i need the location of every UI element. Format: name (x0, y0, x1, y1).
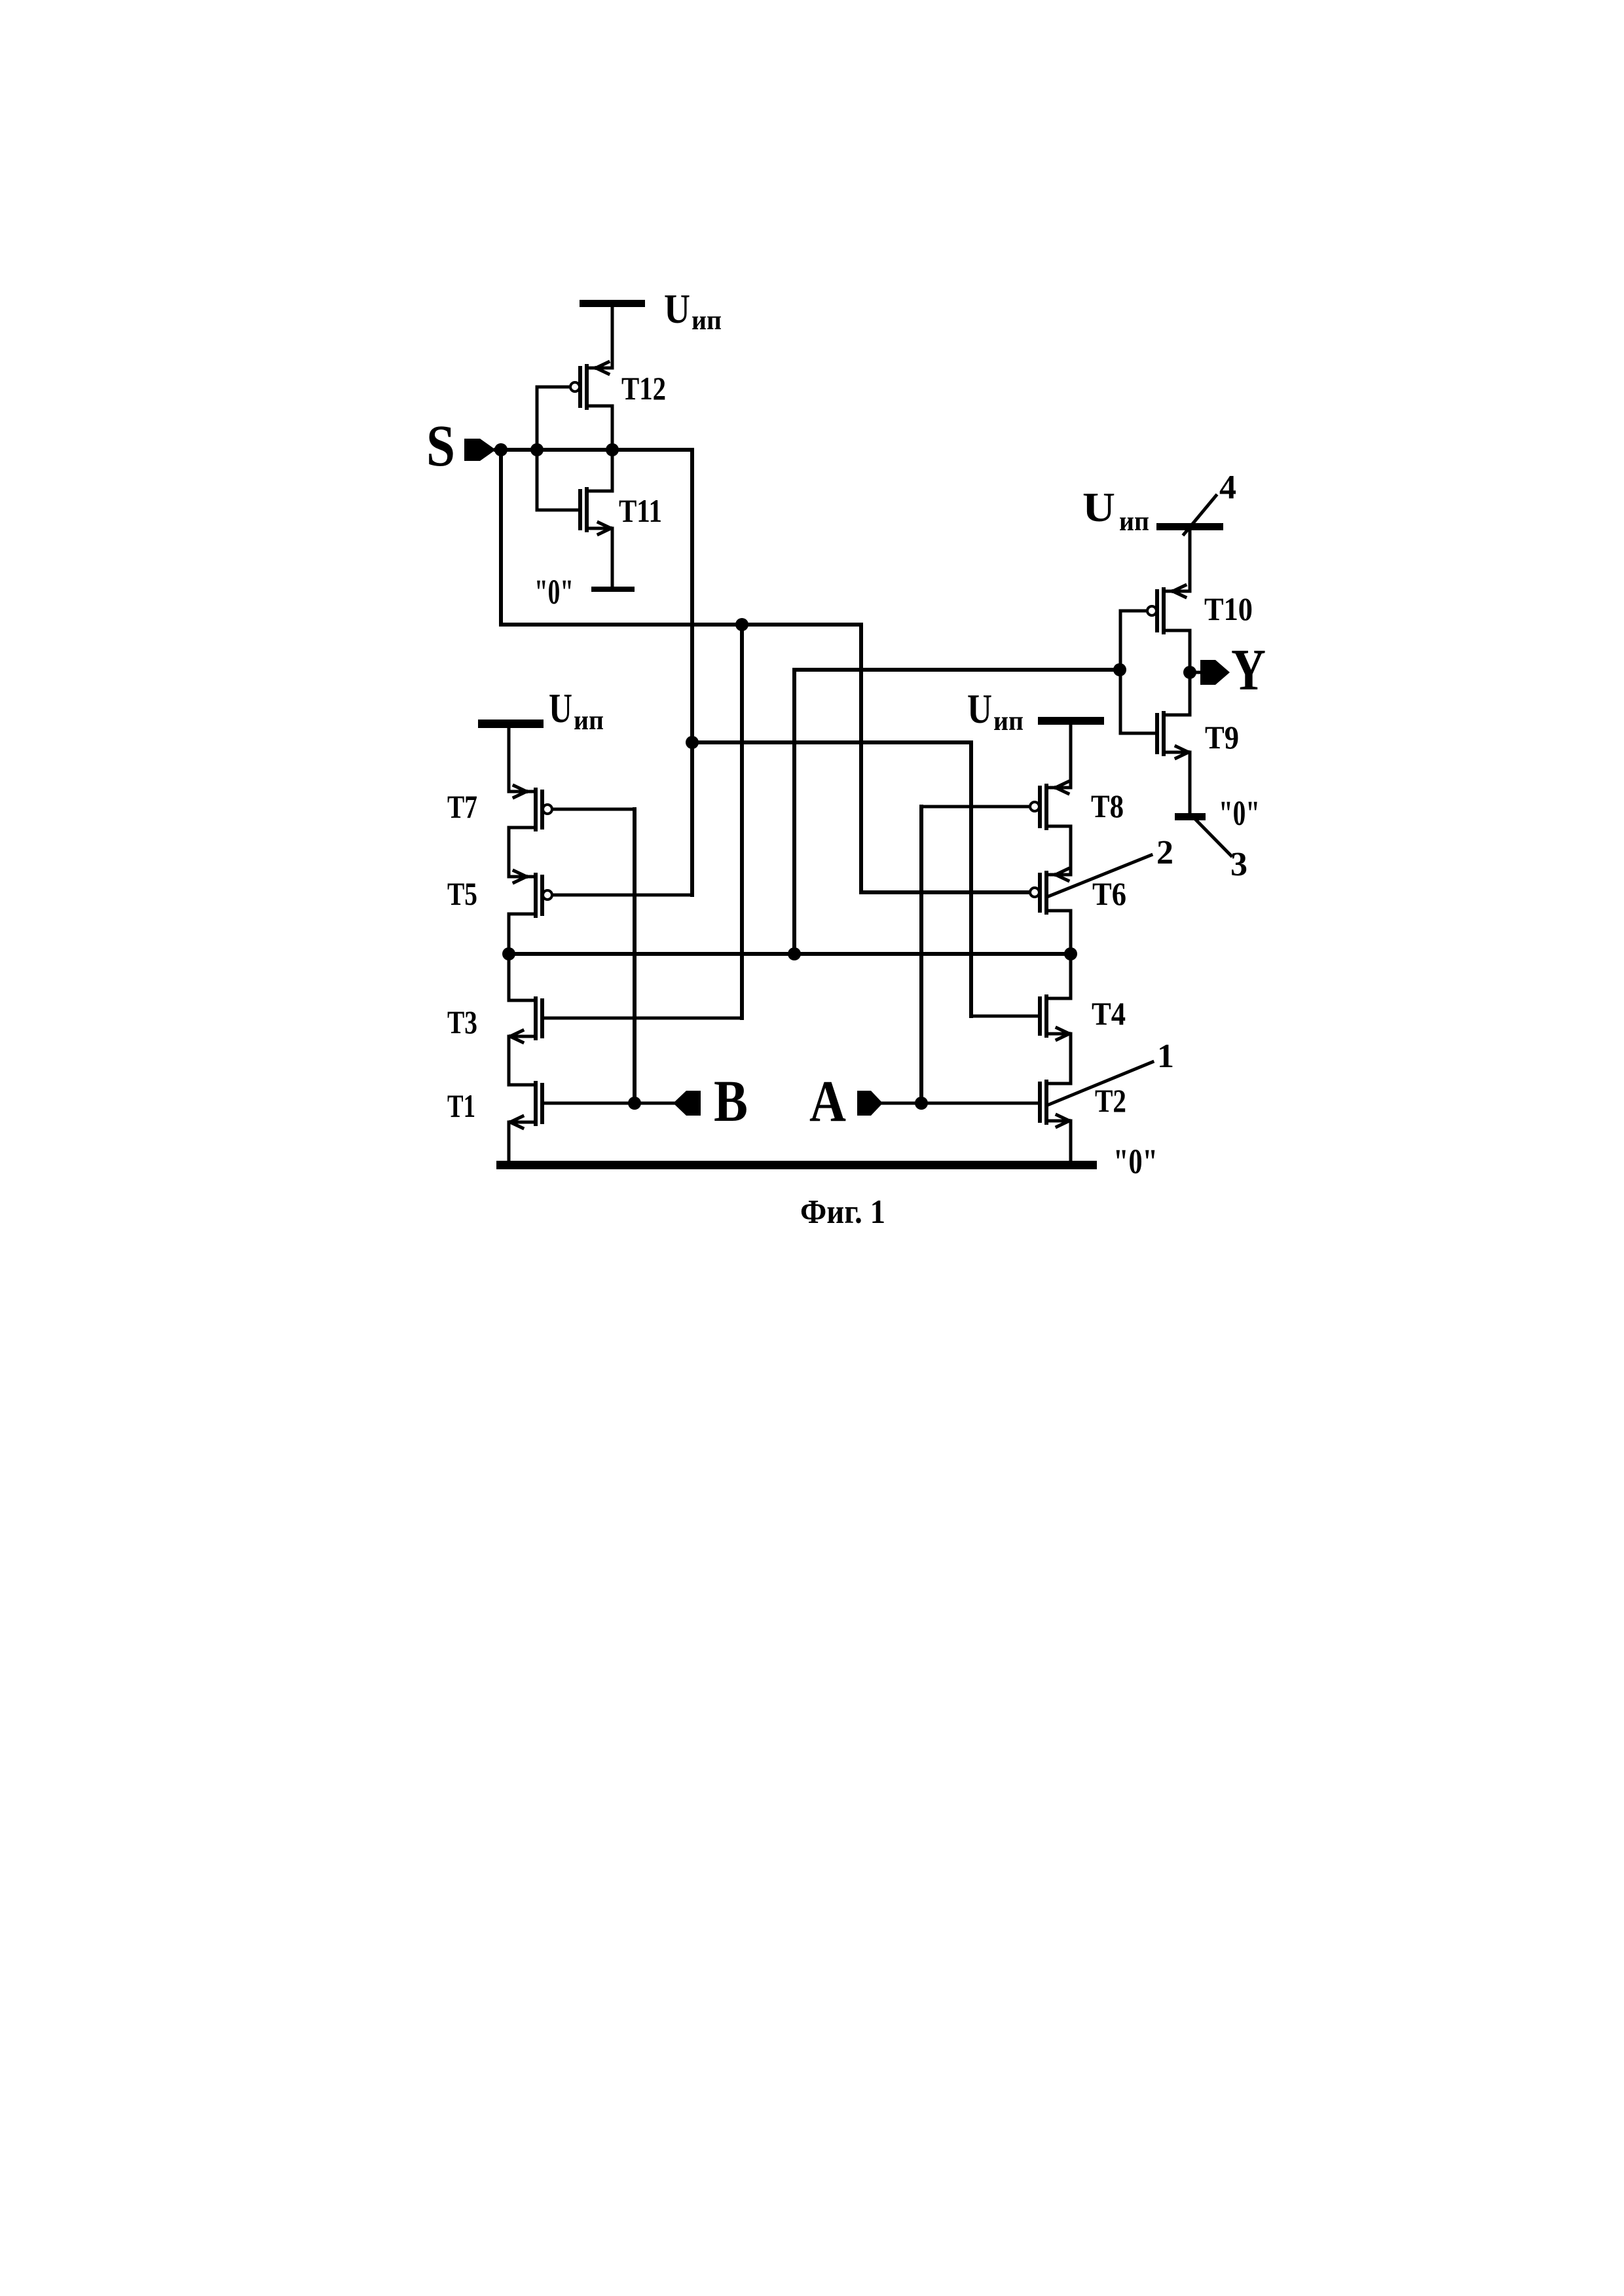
svg-text:"0": "0" (534, 572, 574, 611)
svg-text:T12: T12 (621, 370, 666, 407)
svg-text:ип: ип (692, 306, 722, 336)
svg-text:T7: T7 (447, 788, 477, 825)
svg-text:T3: T3 (447, 1004, 477, 1040)
svg-text:U: U (664, 285, 690, 332)
svg-text:"0": "0" (1219, 793, 1260, 833)
svg-text:T5: T5 (447, 875, 477, 912)
svg-text:B: B (714, 1069, 748, 1134)
svg-text:T8: T8 (1091, 788, 1124, 824)
svg-text:ип: ип (574, 706, 604, 736)
svg-text:1: 1 (1157, 1038, 1174, 1075)
svg-text:Фиг. 1: Фиг. 1 (800, 1194, 885, 1231)
svg-text:T11: T11 (619, 492, 662, 529)
svg-text:U: U (549, 685, 572, 731)
svg-text:T10: T10 (1204, 591, 1253, 627)
svg-text:U: U (967, 685, 992, 732)
svg-text:S: S (426, 414, 455, 479)
svg-text:ип: ип (993, 706, 1024, 737)
svg-text:U: U (1082, 484, 1115, 530)
svg-text:Y: Y (1231, 638, 1266, 702)
svg-text:3: 3 (1230, 846, 1247, 883)
svg-text:"0": "0" (1113, 1142, 1158, 1181)
svg-text:T4: T4 (1092, 995, 1126, 1032)
svg-text:2: 2 (1156, 834, 1173, 871)
svg-text:T2: T2 (1095, 1082, 1126, 1119)
svg-text:T9: T9 (1205, 719, 1239, 756)
svg-text:T6: T6 (1092, 875, 1126, 912)
svg-text:ип: ип (1119, 507, 1149, 537)
svg-text:4: 4 (1219, 469, 1236, 506)
svg-text:A: A (809, 1069, 846, 1134)
svg-text:T1: T1 (447, 1087, 475, 1124)
